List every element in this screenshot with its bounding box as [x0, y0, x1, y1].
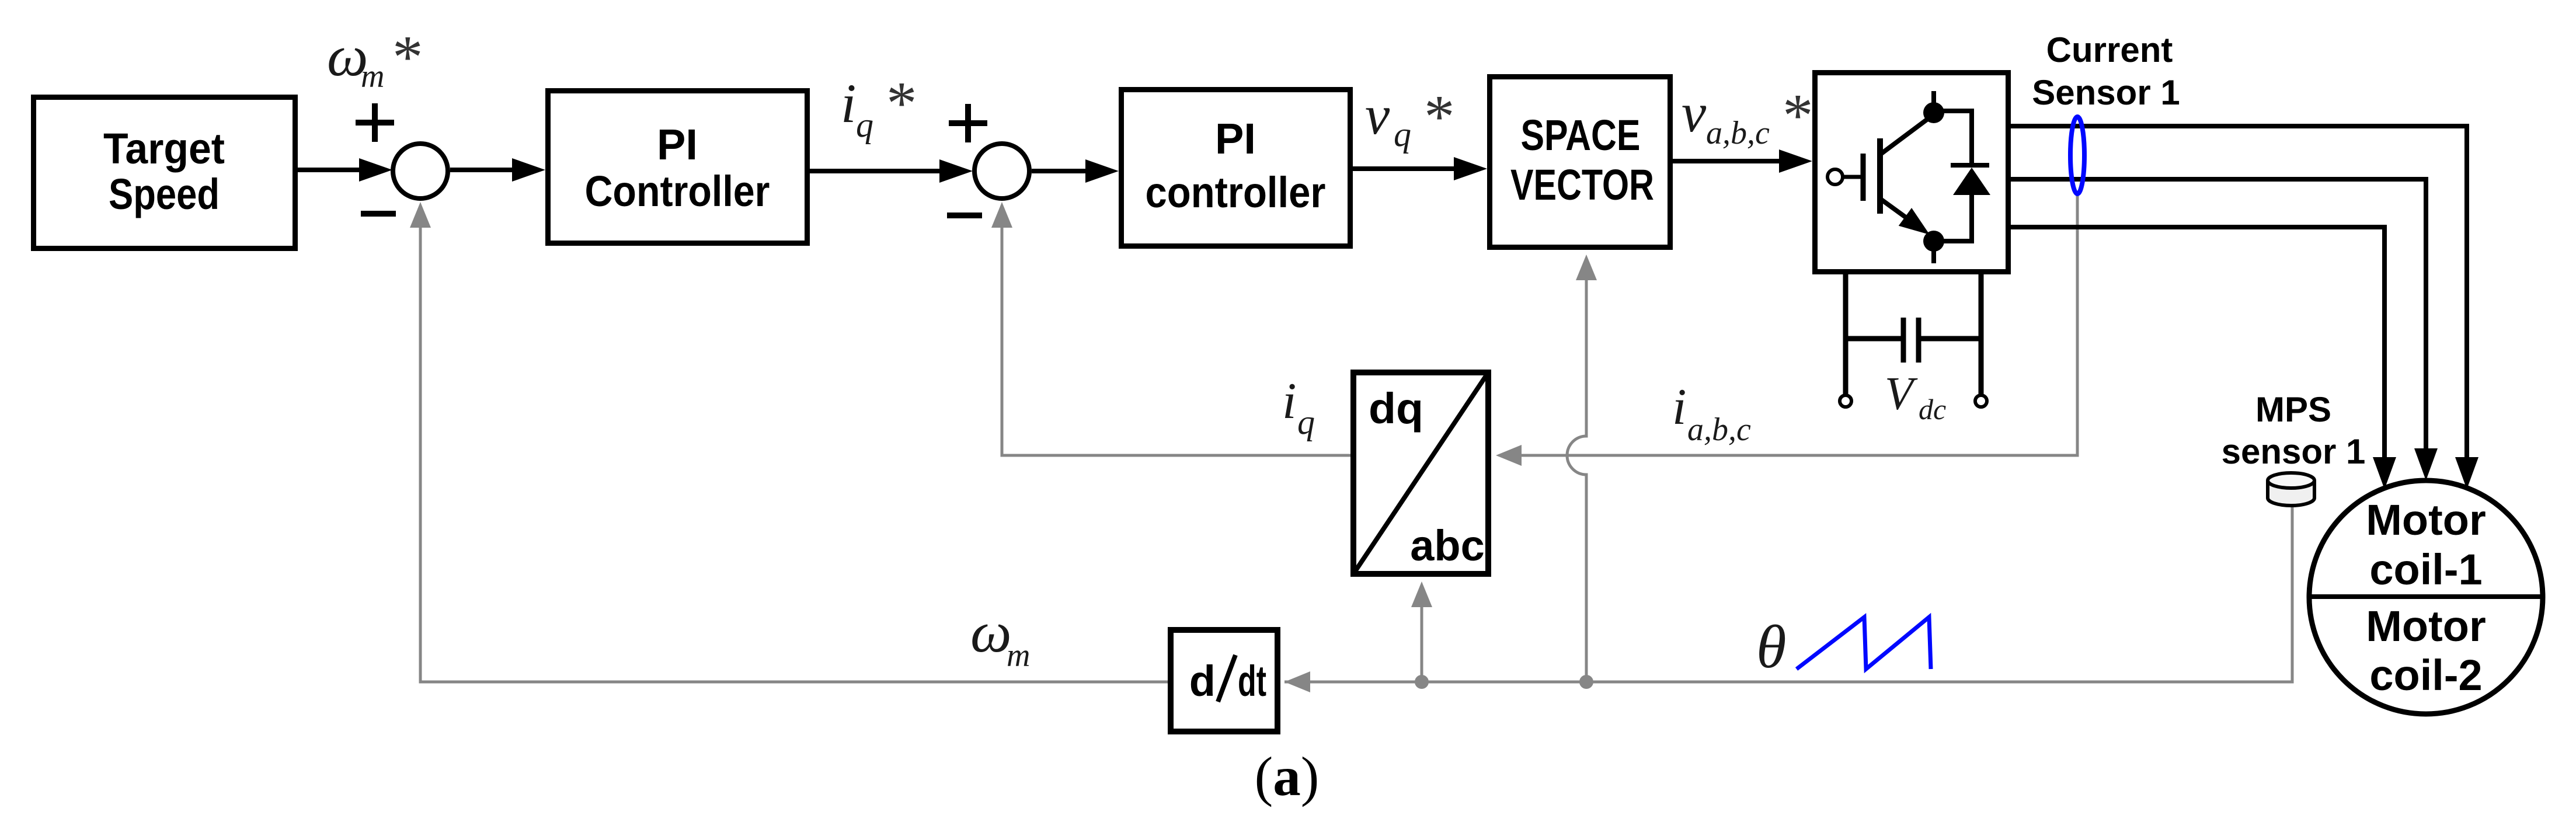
inverter bottom wire from diode	[1934, 193, 1972, 241]
block d/dt	[1171, 630, 1277, 732]
svg-text:(a): (a)	[1255, 746, 1320, 807]
svg-text:coil-2: coil-2	[2369, 651, 2482, 699]
terminal right	[1975, 395, 1987, 407]
svg-text:coil-1: coil-1	[2369, 545, 2482, 594]
block dq/abc transform	[1353, 372, 1488, 574]
wire: Target Speed to S1	[298, 168, 362, 172]
svg-text:SPACE: SPACE	[1521, 111, 1641, 159]
diode D1 cathode bar	[1951, 163, 1989, 168]
svg-text:Target: Target	[103, 124, 225, 173]
wire: phase C output	[2011, 227, 2396, 489]
svg-text:controller: controller	[1146, 168, 1326, 217]
svg-text:Current: Current	[2046, 30, 2173, 69]
theta sawtooth waveform (blue)	[1797, 617, 1931, 669]
svg-text:dt: dt	[1238, 657, 1266, 705]
svg-text:a,b,c: a,b,c	[1706, 115, 1770, 151]
inverter IGBT gate lead	[1843, 175, 1863, 179]
block Target Speed	[34, 97, 295, 249]
svg-text:θ: θ	[1756, 612, 1787, 681]
wire: SPACE VECTOR to inverter	[1673, 159, 1780, 163]
svg-text:m: m	[361, 58, 384, 95]
plus sign S2	[949, 104, 987, 142]
svg-text:q: q	[1297, 403, 1315, 441]
wire: speed feedback bus (gray, bottom)	[420, 225, 2292, 682]
block SPACE VECTOR	[1490, 77, 1670, 248]
label V_dc	[1885, 368, 1946, 426]
wire: phase A output	[2011, 126, 2478, 489]
svg-text:V: V	[1885, 368, 1918, 420]
MPS sensor cylinder	[2268, 473, 2314, 506]
label i_q* (current reference)	[841, 69, 917, 144]
current sensor 1 loop (blue)	[2070, 117, 2084, 194]
block PI Controller	[548, 91, 807, 243]
label v_q* (voltage reference)	[1365, 82, 1455, 154]
svg-text:dc: dc	[1919, 393, 1946, 426]
svg-text:i: i	[1282, 373, 1296, 430]
capacitor C1	[1846, 318, 1981, 363]
inverter IGBT emitter lead with arrow	[1881, 199, 1910, 221]
inverter top wire to diode branch	[1934, 111, 1972, 166]
diode D1 triangle	[1953, 168, 1990, 195]
svg-text:Speed: Speed	[109, 170, 220, 218]
wire: PI controller 2 to SPACE VECTOR	[1353, 166, 1455, 171]
wire: inverter DC left leg	[1843, 274, 1849, 396]
svg-text:VECTOR: VECTOR	[1510, 161, 1654, 209]
inverter IGBT gate circle	[1827, 169, 1843, 184]
svg-text:*: *	[1424, 82, 1455, 151]
node J2 (theta to SPACE VECTOR)	[1579, 675, 1593, 689]
svg-text:d: d	[1189, 657, 1216, 705]
svg-text:*: *	[1783, 81, 1813, 149]
terminal left	[1840, 395, 1851, 407]
label Current Sensor 1	[2032, 30, 2180, 112]
wire: i_q from dq/abc to summing junction S2	[1002, 225, 1350, 455]
inverter IGBT body bar	[1877, 138, 1883, 214]
inverter top node dot	[1923, 91, 1944, 123]
svg-text:q: q	[856, 106, 873, 144]
arrowhead into summing junction S1	[410, 202, 431, 228]
summing junction S1	[393, 144, 448, 198]
wire: i_abc feedback from current sensor to dq/abc	[1520, 193, 2077, 455]
block PI controller 2	[1122, 90, 1350, 246]
minus sign S1	[361, 211, 396, 217]
svg-text:Motor: Motor	[2366, 496, 2486, 544]
svg-text:ω: ω	[970, 600, 1012, 664]
inverter IGBT collector lead	[1881, 114, 1934, 154]
svg-text:i: i	[841, 72, 856, 134]
svg-text:q: q	[1394, 115, 1411, 154]
svg-text:v: v	[1682, 82, 1707, 144]
minus sign S2	[947, 213, 982, 218]
svg-text:dq: dq	[1369, 384, 1423, 433]
label omega_m (measured speed)	[970, 600, 1030, 674]
wire: phase B output	[2011, 179, 2438, 480]
label i_abc feedback	[1672, 379, 1751, 448]
plus sign S1	[356, 103, 394, 142]
svg-text:Controller: Controller	[585, 167, 770, 215]
svg-text:abc: abc	[1410, 521, 1485, 570]
wire: S2 to PI controller 2	[1032, 169, 1087, 173]
label omega_m* (speed reference)	[327, 23, 423, 95]
motor M1 (Motor coil-1 / coil-2)	[2309, 480, 2543, 714]
svg-text:i: i	[1672, 379, 1686, 436]
inverter IGBT gate bar	[1861, 154, 1866, 201]
wire: S1 to PI Controller	[450, 168, 514, 172]
arrowhead into d/dt box	[1284, 671, 1310, 692]
wire: inverter DC right leg	[1979, 274, 1984, 396]
block inverter U1	[1815, 73, 2008, 272]
svg-text:*: *	[886, 69, 917, 137]
label MPS sensor 1	[2222, 390, 2366, 471]
svg-text:m: m	[1007, 638, 1030, 674]
svg-text:a,b,c: a,b,c	[1687, 412, 1751, 448]
svg-text:sensor 1: sensor 1	[2222, 432, 2366, 471]
svg-text:*: *	[392, 23, 423, 91]
svg-text:v: v	[1365, 84, 1390, 146]
svg-text:PI: PI	[657, 120, 698, 169]
svg-text:Motor: Motor	[2366, 602, 2486, 650]
summing junction S2	[974, 144, 1029, 198]
svg-text:MPS: MPS	[2255, 390, 2331, 429]
node J1 (theta to dq/abc)	[1415, 675, 1429, 689]
wire: PI Controller to S2	[810, 169, 943, 173]
label v_abc* (phase voltage references)	[1682, 81, 1813, 151]
wire: theta up to dq/abc	[1421, 604, 1423, 682]
label i_q feedback	[1282, 373, 1315, 441]
inverter bottom node dot	[1923, 231, 1944, 263]
svg-text:PI: PI	[1215, 114, 1256, 163]
wire: theta up to SPACE VECTOR with hop over i_abc line	[1567, 279, 1586, 682]
svg-text:Sensor 1: Sensor 1	[2032, 73, 2180, 112]
